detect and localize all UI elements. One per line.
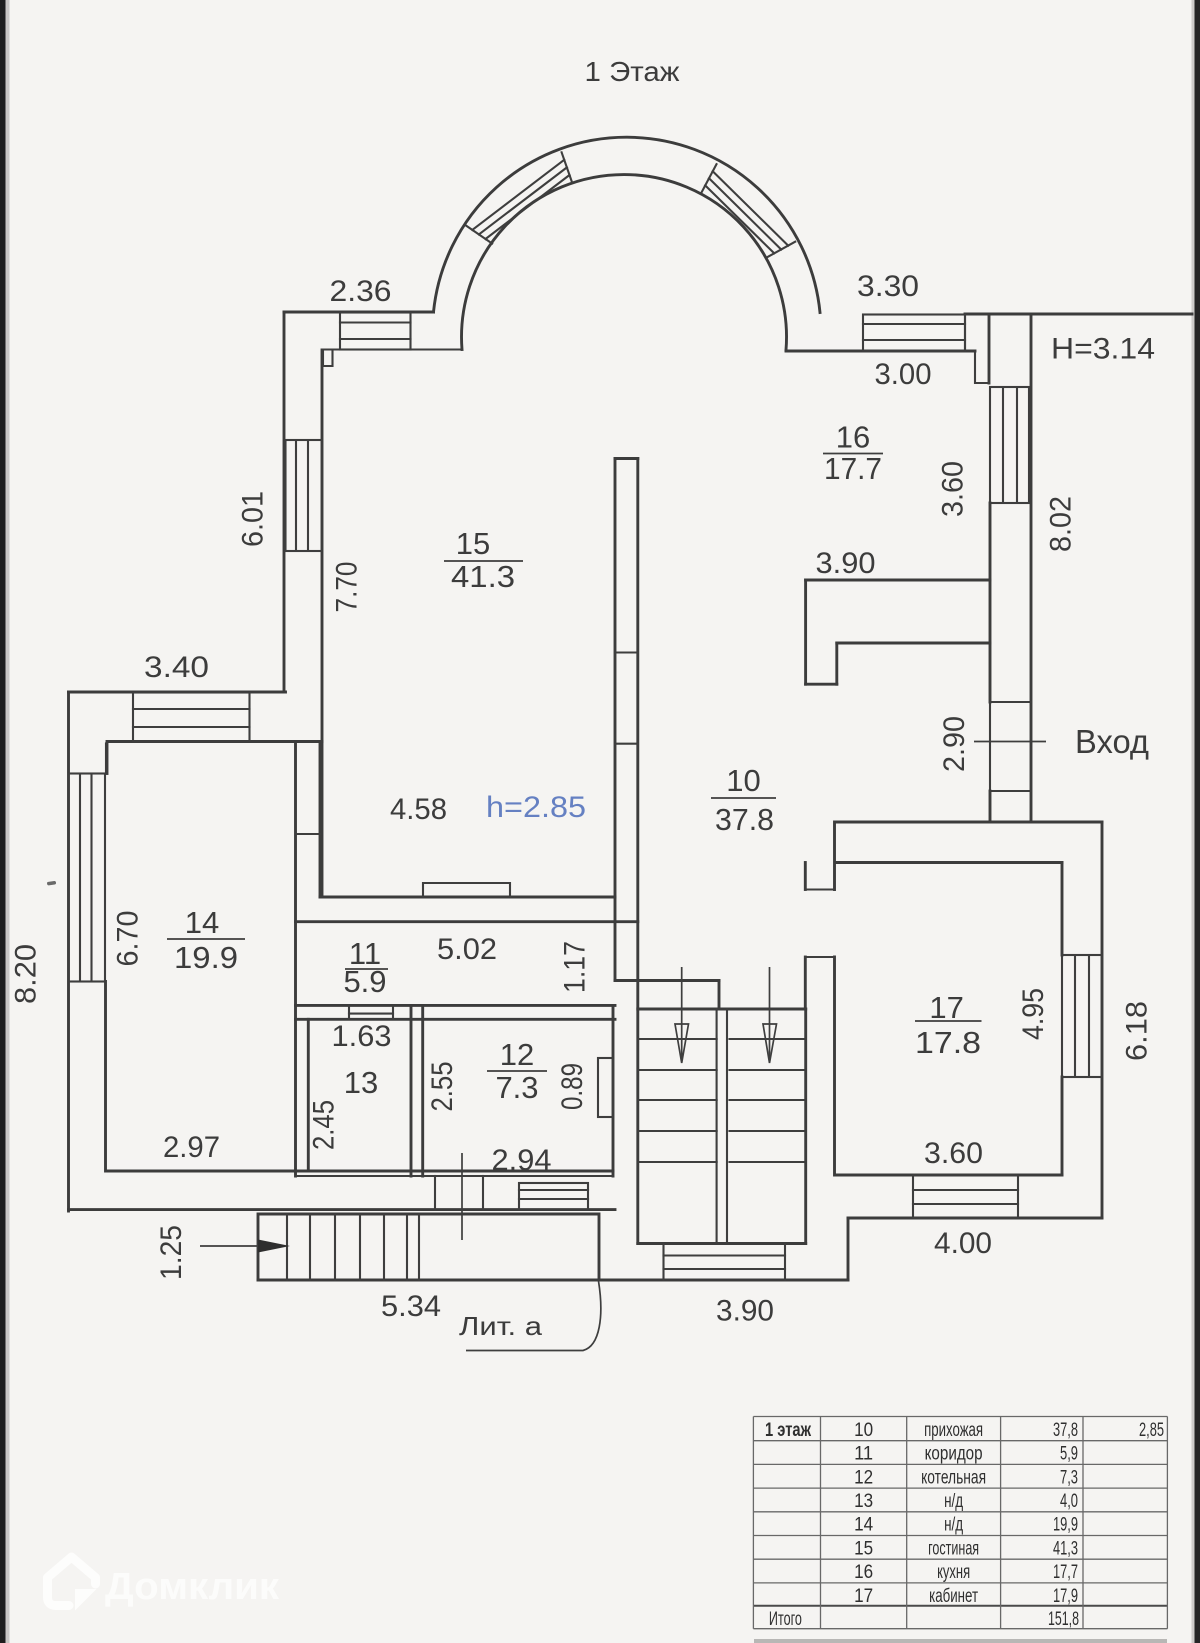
entrance door leaf line	[974, 741, 1046, 743]
svg-text:2.97: 2.97	[163, 1131, 220, 1164]
svg-text:3.40: 3.40	[144, 651, 209, 684]
stair right wall x805.7	[804, 1009, 807, 1244]
tick bottom of entrance door	[990, 790, 1031, 792]
svg-text:13: 13	[344, 1065, 378, 1100]
wall step left of room 17 bottom	[847, 1218, 850, 1280]
scan edge strip left	[0, 0, 6, 1643]
svg-text:3.60: 3.60	[937, 461, 970, 517]
svg-text:2,85: 2,85	[1139, 1420, 1164, 1441]
svg-text:4.00: 4.00	[934, 1227, 992, 1260]
porch stair treads	[287, 1214, 419, 1280]
bottom wall inner y1171	[107, 1170, 613, 1173]
stair arrow left	[681, 967, 683, 1058]
svg-text:151,8: 151,8	[1048, 1609, 1079, 1630]
svg-text:3.30: 3.30	[857, 270, 919, 303]
spine wall top cap	[615, 457, 638, 460]
rooms 13-12 top wall lower y1019	[296, 1018, 616, 1021]
svg-text:41,3: 41,3	[1053, 1538, 1078, 1559]
svg-text:11: 11	[854, 1444, 873, 1465]
svg-text:Итого: Итого	[769, 1609, 802, 1630]
svg-text:0.89: 0.89	[556, 1063, 589, 1110]
arch window right band glazing lines	[705, 171, 788, 253]
arrow 1.25	[200, 1245, 260, 1247]
svg-text:19,9: 19,9	[1053, 1515, 1078, 1536]
stair-17 wall right lower	[833, 957, 836, 1175]
scan edge strip right	[1195, 0, 1200, 1643]
wall segment x989 top right	[988, 314, 991, 383]
notch kitchen top right corner	[975, 353, 989, 383]
svg-text:14: 14	[185, 905, 219, 940]
wall top inner left segment	[323, 348, 462, 350]
spine wall tick y652	[615, 651, 638, 653]
svg-text:1.17: 1.17	[559, 941, 592, 993]
stair treads right flight	[730, 1039, 806, 1162]
corridor 11 top wall y921.7	[296, 920, 638, 923]
svg-text:15: 15	[456, 526, 490, 561]
svg-text:10: 10	[726, 763, 760, 798]
stair-17 wall left upper	[804, 863, 807, 890]
wall right outer x1031	[1030, 314, 1033, 822]
svg-text:17.7: 17.7	[824, 451, 882, 486]
leader Lit. a underline and curve	[466, 1281, 601, 1351]
svg-text:5.02: 5.02	[437, 933, 497, 966]
window 3.60 room 17 bottom wall	[913, 1175, 1018, 1218]
door tick room 17 bottom	[805, 956, 834, 958]
svg-text:12: 12	[500, 1037, 534, 1072]
room 12 right wall x613	[612, 1005, 615, 1176]
notch below top-left inner wall	[323, 350, 333, 366]
svg-text:15: 15	[854, 1538, 873, 1559]
svg-text:19.9: 19.9	[174, 940, 238, 975]
arch window left band radial B	[562, 152, 573, 182]
bottom band tick x435	[434, 1176, 436, 1210]
svg-text:37,8: 37,8	[1053, 1420, 1078, 1441]
porch outline	[258, 1214, 599, 1280]
stair center rail left	[716, 1009, 718, 1244]
svg-text:н/д: н/д	[944, 1491, 963, 1512]
svg-text:17.8: 17.8	[915, 1025, 981, 1060]
fraction line room 16	[823, 453, 883, 455]
room 17 right inner wall upper	[1061, 863, 1064, 956]
svg-text:8.20: 8.20	[10, 944, 43, 1004]
window 4.95 room 17 right wall	[1062, 955, 1102, 1077]
entrance door inner edge	[989, 702, 991, 791]
svg-text:2.36: 2.36	[330, 275, 392, 308]
leader line door to porch	[461, 1153, 463, 1240]
fraction line room 17	[915, 1020, 982, 1022]
svg-text:17,9: 17,9	[1053, 1586, 1078, 1607]
kitchen bottom wall inner y643	[837, 642, 990, 645]
bottom band tick x483	[482, 1176, 484, 1210]
watermark Domclick house icon	[48, 1557, 96, 1606]
tick top of entrance door	[990, 701, 1031, 703]
wall rooms 14-13 x295.5	[294, 742, 297, 1177]
fraction line room 10	[711, 797, 776, 799]
svg-text:3.90: 3.90	[716, 1295, 774, 1328]
door 1.63 right tick	[392, 1005, 394, 1019]
svg-text:14: 14	[854, 1515, 873, 1536]
svg-text:2.90: 2.90	[938, 716, 971, 772]
room 17 block top outer y822	[835, 821, 1102, 824]
stair-17 wall left lower	[804, 957, 807, 1009]
svg-text:1 Этаж: 1 Этаж	[585, 56, 680, 87]
wall rooms 13-12 left line	[410, 1005, 413, 1176]
svg-text:кухня: кухня	[937, 1562, 970, 1583]
svg-text:7.3: 7.3	[495, 1070, 538, 1105]
room 14 wall top left	[106, 744, 109, 774]
fraction line room 15	[444, 560, 523, 562]
cropped next table edge	[754, 1639, 1167, 1643]
door tick room 17 top	[805, 888, 834, 890]
svg-text:4.95: 4.95	[1017, 988, 1050, 1040]
window 2.36 top wall	[340, 313, 411, 350]
bottom outer line y1280	[258, 1279, 848, 1282]
svg-text:прихожая: прихожая	[924, 1420, 983, 1441]
door 1.63 left tick	[348, 1005, 350, 1019]
room 17 bottom inner y1175	[835, 1174, 1062, 1177]
svg-text:2.45: 2.45	[308, 1100, 341, 1150]
arch window right band radial C	[702, 164, 717, 192]
svg-text:н/д: н/д	[944, 1515, 963, 1536]
table explication	[753, 1417, 1167, 1629]
room 17 block top inner y862.5	[835, 861, 1062, 864]
room 17 right inner wall lower	[1061, 1077, 1064, 1175]
wall top inner right of arch	[786, 350, 975, 353]
stair arrow right	[769, 967, 771, 1058]
room 13 inner left wall	[307, 1019, 310, 1171]
svg-text:17,7: 17,7	[1053, 1562, 1078, 1583]
svg-text:6.70: 6.70	[112, 911, 145, 967]
svg-text:Домклик: Домклик	[105, 1566, 280, 1608]
svg-text:5.9: 5.9	[343, 964, 386, 999]
door leaf room 12	[598, 1058, 613, 1117]
svg-text:10: 10	[854, 1420, 873, 1441]
arch window left band glazing lines	[472, 160, 569, 239]
room 13 floor line	[308, 1170, 411, 1172]
svg-text:6.01: 6.01	[237, 491, 270, 547]
window 6.01 left wall	[286, 440, 323, 551]
window 3.30 right jamb	[964, 314, 966, 351]
svg-text:7,3: 7,3	[1060, 1467, 1078, 1488]
svg-text:8.02: 8.02	[1045, 496, 1078, 552]
threshold bump room 15 bottom	[423, 883, 510, 897]
svg-text:H=3.14: H=3.14	[1051, 333, 1155, 366]
stair-17 wall right upper	[833, 822, 836, 890]
rooms 13-12 top wall upper y1005	[296, 1004, 616, 1007]
svg-text:37.8: 37.8	[715, 802, 774, 837]
wall rooms 13-12 right line	[421, 1005, 424, 1176]
svg-text:3.90: 3.90	[816, 547, 876, 580]
svg-text:16: 16	[854, 1562, 873, 1583]
spine wall right x637.8	[636, 459, 639, 1244]
arch bay outer arc	[434, 137, 821, 312]
fraction line room 11	[345, 968, 388, 970]
arch window left band radial A	[466, 225, 492, 243]
svg-text:котельная: котельная	[921, 1467, 986, 1488]
stair top floor line y1009	[638, 1008, 806, 1011]
scan speck	[47, 881, 56, 886]
door 1.63 threshold line	[349, 1013, 393, 1015]
arch window right band radial D	[767, 242, 795, 258]
kitchen bottom wall step right	[835, 643, 838, 684]
wall rooms 14-15 inner x320	[319, 742, 322, 898]
window 6.70 left wall	[69, 774, 106, 982]
stair bottom landing steps	[664, 1244, 786, 1281]
svg-text:13: 13	[854, 1491, 873, 1512]
stair landing edge x719	[718, 981, 721, 1010]
stair center rail right	[726, 1009, 728, 1244]
svg-text:4.58: 4.58	[390, 793, 447, 826]
svg-text:5.34: 5.34	[381, 1290, 441, 1323]
svg-text:h=2.85: h=2.85	[486, 791, 586, 824]
bottom wall second line y1176	[296, 1175, 614, 1177]
small stair bottom of hall	[519, 1183, 588, 1210]
wall left inner below window 6.70	[104, 982, 107, 1172]
stair landing edge y980.5	[615, 979, 719, 982]
wall left outer x284	[283, 312, 286, 692]
svg-text:Лит. а: Лит. а	[459, 1311, 543, 1341]
stair bottom inner y1243.5	[638, 1242, 806, 1245]
svg-text:7.70: 7.70	[331, 562, 364, 613]
svg-text:16: 16	[836, 420, 870, 455]
window 8.02 right wall kitchen	[990, 387, 1029, 503]
stair treads left flight	[638, 1039, 717, 1162]
kitchen bottom wall step bottom	[806, 683, 837, 686]
svg-text:коридор: коридор	[925, 1444, 983, 1465]
wall left inner x322	[321, 350, 324, 897]
svg-text:6.18: 6.18	[1121, 1001, 1154, 1061]
wall left outer x68.5	[67, 692, 70, 1211]
arch bay inner arc	[462, 175, 787, 350]
svg-text:4,0: 4,0	[1060, 1491, 1078, 1512]
kitchen bottom wall outer y580	[806, 579, 990, 582]
bottom wall outer y1209.6	[69, 1208, 616, 1211]
window 3.40 step wall	[133, 693, 250, 742]
wall right inner x990 below window	[989, 503, 992, 702]
room 15 bottom wall y897	[320, 896, 615, 899]
fraction line room 14	[167, 938, 245, 940]
wall inner x990 below door	[989, 791, 992, 822]
wall step outer y692	[69, 691, 286, 694]
svg-text:1.25: 1.25	[155, 1225, 188, 1280]
svg-text:17: 17	[929, 990, 963, 1025]
svg-text:41.3: 41.3	[451, 559, 515, 594]
fraction line room 12	[487, 1070, 547, 1072]
svg-text:12: 12	[854, 1467, 873, 1488]
svg-text:5,9: 5,9	[1060, 1444, 1078, 1465]
svg-text:кабинет: кабинет	[929, 1586, 978, 1607]
wall top outer left of arch	[284, 311, 434, 314]
svg-text:3.00: 3.00	[875, 358, 932, 391]
svg-text:гостиная: гостиная	[928, 1538, 979, 1559]
svg-text:1.63: 1.63	[332, 1020, 392, 1053]
wall step inner y741.5	[107, 740, 322, 743]
kitchen bottom wall left step	[804, 580, 807, 684]
wall top outer right with overhang	[965, 313, 1192, 316]
wall inner above window 6.70	[105, 744, 107, 774]
svg-text:Вход: Вход	[1075, 723, 1149, 760]
window 3.30 kitchen top wall	[863, 315, 965, 352]
svg-text:3.60: 3.60	[924, 1137, 983, 1170]
spine wall tick y743	[615, 743, 638, 745]
svg-text:1 этаж: 1 этаж	[765, 1420, 811, 1441]
room 17 right outer wall x1102	[1101, 822, 1104, 1218]
svg-text:17: 17	[854, 1586, 873, 1607]
spine wall left x615	[614, 459, 617, 981]
svg-text:2.55: 2.55	[426, 1062, 459, 1112]
room 17 bottom outer y1218	[848, 1217, 1102, 1220]
wall 14-15 joint tick	[296, 833, 321, 835]
